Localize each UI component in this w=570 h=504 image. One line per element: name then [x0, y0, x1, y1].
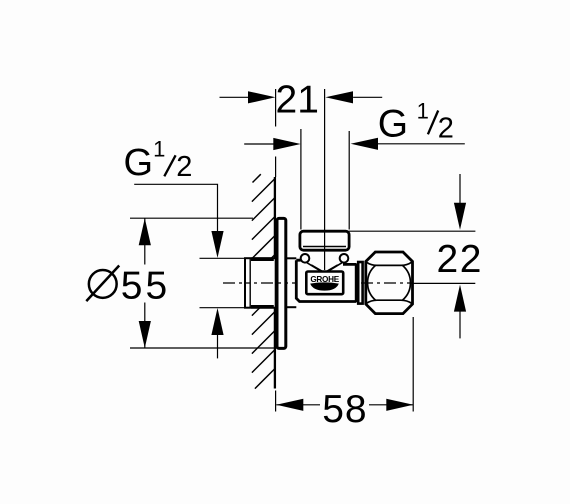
arrow right: [386, 399, 413, 411]
text mask: [320, 389, 369, 423]
arrow left: [276, 399, 303, 411]
svg-text:1: 1: [417, 98, 429, 123]
arrow down to pipe top: [211, 231, 223, 258]
arrow right: [325, 91, 353, 103]
arrow pointing right at left edge: [273, 138, 300, 150]
pipe bottom ext line: [200, 307, 247, 309]
svg-text:22: 22: [437, 238, 483, 281]
svg-text:55: 55: [121, 264, 170, 307]
washer ring: [358, 262, 362, 304]
ext line cap left edge up: [300, 129, 302, 230]
arrow down: [454, 203, 466, 230]
dim line: [276, 404, 413, 406]
bonnet cap: [300, 231, 349, 250]
arrow up tail: [459, 312, 461, 339]
arrow up: [139, 218, 151, 245]
compression nut: [366, 252, 413, 314]
value diameter 55: [86, 264, 170, 307]
svg-text:1: 1: [153, 137, 165, 162]
left side bump: [301, 254, 310, 263]
vertical axis line through bonnet: [324, 89, 326, 270]
funnel cone lines: [307, 263, 343, 273]
thread end face line: [249, 259, 251, 307]
arrow pointing left at right edge + underline: [351, 138, 378, 150]
thread crest thick bottom band: [251, 305, 274, 309]
arrow up: [454, 285, 466, 312]
svg-text:21: 21: [276, 79, 319, 122]
ext line left (below wall): [275, 391, 277, 412]
nut hex face arcs: [366, 262, 411, 265]
label plate: [306, 272, 343, 295]
dimension 21: [220, 79, 383, 177]
ext line top: [130, 217, 253, 219]
dim line: [144, 218, 146, 348]
svg-text:G: G: [378, 103, 408, 146]
arrow left: [248, 91, 275, 103]
top G 1/2 callout: [244, 98, 465, 229]
ext line left (wall face ext up, with gap): [275, 89, 277, 177]
tail below: [217, 335, 219, 358]
wall hatching: [252, 174, 275, 388]
right side bump: [340, 254, 349, 263]
centerline main axis: [223, 282, 413, 284]
cap inner chamfer line: [303, 246, 346, 248]
dimension 58: [276, 317, 414, 431]
ext line cap right edge up: [348, 131, 350, 230]
svg-text:58: 58: [322, 388, 367, 431]
valve body interior mask: [298, 262, 356, 301]
centerline extension right (22 bottom extension line): [413, 282, 475, 284]
arrow down: [139, 321, 151, 348]
wall face line: [274, 177, 276, 389]
GROHE swoosh: [310, 282, 339, 290]
ext line right (below nut): [412, 317, 414, 412]
valve body: [296, 260, 356, 301]
wall thread pipe (G 1/2 inlet): [245, 258, 276, 308]
centerline through pipe: [246, 282, 278, 284]
neck between flange and body: [286, 257, 297, 259]
svg-text:G: G: [124, 142, 154, 184]
text mask: [84, 265, 170, 303]
outlet neck: [355, 264, 359, 301]
dim line tails: [220, 96, 383, 98]
dimension diameter 55: [84, 218, 278, 348]
underline + leader down: [134, 184, 217, 231]
flange (wall rosette): [277, 218, 286, 348]
left G 1/2 callout: [124, 137, 247, 359]
svg-text:2: 2: [176, 151, 192, 183]
ext line top (from cap corner): [349, 230, 476, 232]
svg-text:2: 2: [438, 112, 454, 144]
ext line bottom: [130, 347, 278, 349]
arrow up to pipe bottom: [211, 308, 223, 335]
dimension 22: [349, 174, 483, 338]
pipe top ext line: [200, 257, 247, 259]
thread crest thick top band: [251, 257, 274, 261]
arrow down tail: [459, 174, 461, 203]
